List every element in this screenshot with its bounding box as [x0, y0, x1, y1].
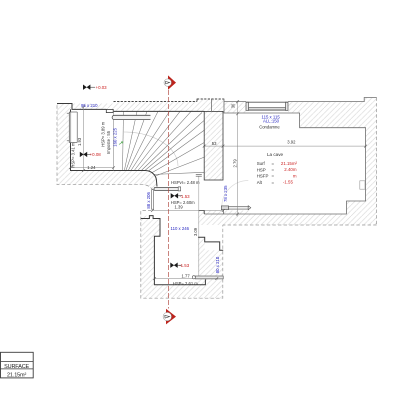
door swing arc in vestibule	[222, 181, 249, 208]
corridor right thin line	[198, 176, 200, 277]
svg-text:-1.53: -1.53	[180, 194, 191, 199]
svg-text:m: m	[293, 174, 297, 179]
svg-text:2.40m: 2.40m	[284, 167, 297, 172]
stair handrail	[112, 115, 150, 119]
wall hatch: pier between stair and cave	[204, 111, 223, 180]
svg-text:36: 36	[231, 103, 236, 108]
north window 115x115	[246, 102, 288, 110]
svg-text:21.15m²: 21.15m²	[281, 161, 298, 166]
svg-text:ALL:150: ALL:150	[263, 119, 280, 124]
wall hatch: bottom room left wall	[141, 216, 155, 285]
svg-text:3.09: 3.09	[193, 227, 198, 236]
svg-text:-1.53: -1.53	[179, 263, 190, 268]
svg-text:1.93: 1.93	[77, 137, 82, 146]
svg-text:HSFP: HSFP	[257, 174, 269, 179]
corridor left opening bar 88x206	[152, 190, 154, 210]
svg-text:HSP= 3.41 m: HSP= 3.41 m	[71, 142, 76, 168]
svg-text:110 x 246: 110 x 246	[171, 226, 190, 231]
dimension lines	[71, 101, 366, 279]
dimension ticks	[69, 100, 367, 280]
pier wall outline	[204, 111, 223, 180]
svg-text:3.92: 3.92	[287, 139, 296, 144]
svg-text:HSP: HSP	[257, 167, 266, 172]
svg-text:La cave: La cave	[267, 152, 284, 157]
wall hatch: west wall	[57, 104, 71, 185]
svg-text:Imposte : 55: Imposte : 55	[106, 130, 111, 154]
svg-text:Surf: Surf	[257, 161, 266, 166]
svg-text:HSPvr= 2.48 m: HSPvr= 2.48 m	[171, 180, 200, 185]
svg-text:SURFACE: SURFACE	[4, 364, 29, 370]
svg-text:=: =	[272, 174, 275, 179]
svg-text:-1.55: -1.55	[283, 180, 294, 185]
svg-text:HSP= 2.61 m: HSP= 2.61 m	[173, 281, 199, 286]
svg-text:+0.08: +0.08	[90, 152, 102, 157]
level marker -1.53 (corridor)	[171, 193, 182, 198]
svg-text:95 x 210: 95 x 210	[81, 103, 98, 108]
svg-text:=: =	[272, 167, 275, 172]
stair top wall interior edge	[114, 110, 205, 112]
green mark	[119, 142, 123, 145]
level marker -1.53 (bottom room)	[170, 263, 181, 268]
stair bottom door bar	[154, 187, 180, 190]
wall hatch: north-west band	[71, 104, 114, 110]
svg-text:1.39: 1.39	[175, 204, 184, 209]
svg-text:78 x 235: 78 x 235	[223, 185, 228, 202]
svg-text:+0.03: +0.03	[96, 85, 108, 90]
svg-text:80 x 210: 80 x 210	[215, 256, 220, 273]
wall hatch: cave east wall	[366, 102, 377, 225]
jamb bump at top of stair opening	[106, 109, 113, 112]
east wall door	[360, 181, 365, 189]
section marker bottom	[163, 309, 176, 325]
stair winder treads	[123, 111, 205, 180]
svg-text:=: =	[272, 161, 275, 166]
svg-text:2.79: 2.79	[232, 159, 237, 168]
svg-text:Condamne: Condamne	[259, 125, 280, 130]
section marker top	[164, 75, 176, 89]
wall hatch: stair top band	[114, 101, 198, 111]
svg-text:1.24: 1.24	[87, 165, 96, 170]
svg-text:HSP= 3.89 m: HSP= 3.89 m	[101, 121, 106, 147]
level marker +0.03	[83, 85, 95, 90]
corridor right step	[198, 210, 204, 214]
wall hatch: cave north wall	[224, 102, 246, 113]
west window 95x210	[67, 112, 78, 143]
top wall outer dashed dark edge	[114, 99, 225, 102]
bottom room door bar 80x210	[192, 276, 223, 279]
svg-text:1.77: 1.77	[182, 273, 191, 278]
wall hatch: south band of landing room	[57, 171, 157, 191]
cave west door bar 78x235	[221, 206, 251, 210]
svg-text:21.15m²: 21.15m²	[7, 373, 26, 379]
svg-text:53: 53	[212, 141, 217, 146]
svg-text:88 x 206: 88 x 206	[146, 192, 151, 209]
wall hatch: bottom room right wall	[198, 237, 205, 250]
opening line 160x225	[113, 111, 115, 170]
wall hatch: bottom room bottom band	[141, 285, 223, 298]
stair walking-line arc	[124, 132, 178, 166]
svg-text:160 x 225: 160 x 225	[112, 127, 117, 146]
wall hatch: cave south wall	[198, 210, 251, 225]
svg-text:Alt: Alt	[257, 180, 263, 185]
svg-text:=: =	[272, 180, 275, 185]
red section line	[168, 90, 170, 309]
dashed outer boundary west	[57, 98, 377, 299]
bottom room outline	[141, 216, 223, 285]
landing room interior outline	[57, 104, 157, 187]
level marker +0.08	[80, 152, 91, 157]
cave outline	[204, 98, 376, 215]
SURFACE box	[1, 352, 34, 378]
